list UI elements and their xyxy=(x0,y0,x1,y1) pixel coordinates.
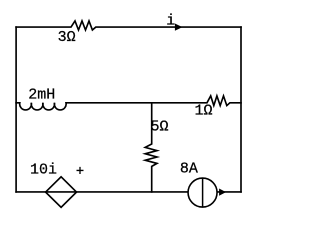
svg-text:10i: 10i xyxy=(30,161,57,178)
svg-text:i: i xyxy=(166,13,175,30)
svg-text:8A: 8A xyxy=(180,160,198,177)
svg-text:5Ω: 5Ω xyxy=(151,118,169,135)
svg-text:1Ω: 1Ω xyxy=(195,102,213,119)
svg-text:2mH: 2mH xyxy=(28,87,55,104)
svg-text:3Ω: 3Ω xyxy=(58,29,76,46)
